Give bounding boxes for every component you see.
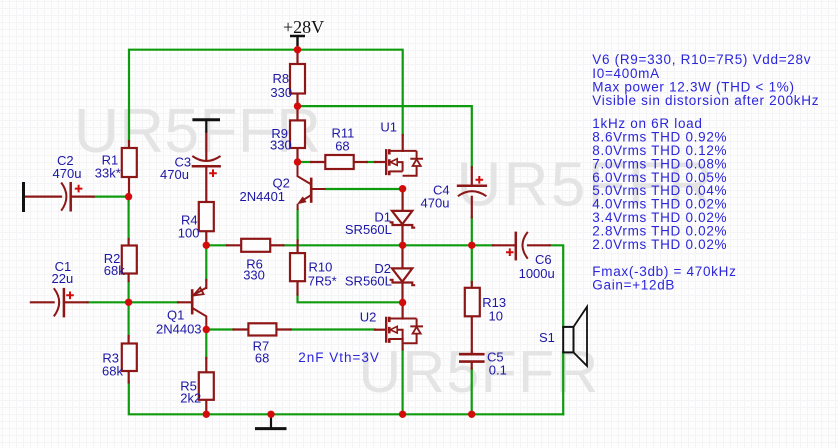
resistor R9 (290, 120, 305, 148)
wire R9 bottom node to R11 (299, 161, 311, 163)
resistor R4 (199, 202, 214, 231)
wire Q2 base to U1 source node (326, 188, 403, 190)
wire R1 top lead (128, 141, 130, 148)
wire R7 right lead (277, 328, 291, 330)
junction D2/U2 drain (399, 299, 406, 306)
wire U2 gate lead (375, 329, 386, 331)
svg-text:+28V: +28V (283, 17, 324, 37)
wire Q1 collector node to R7 (206, 328, 233, 330)
svg-text:Gain=+12dB: Gain=+12dB (592, 278, 675, 293)
wire D2 anode lead (401, 245, 403, 268)
wire R3 top lead (128, 336, 130, 344)
wire Q1 collector node to R5 (205, 330, 207, 359)
junction R5/ground rail (203, 411, 210, 418)
capacitor C4 (457, 186, 487, 196)
wire R2 top lead (128, 239, 130, 246)
wire R5 bottom lead (205, 400, 207, 415)
wire R7 left lead (234, 328, 249, 330)
transistor Q2 (297, 162, 326, 210)
wire U1 drain lead (402, 135, 404, 151)
svg-text:33k*: 33k* (95, 166, 121, 181)
polarity + C3 (209, 169, 217, 177)
wire R3 bottom lead (128, 371, 130, 382)
junction U1 source/D1 (399, 185, 406, 192)
svg-text:470u: 470u (421, 196, 450, 211)
wire C4 bottom lead (471, 197, 473, 218)
wire D2 cathode lead (401, 283, 403, 303)
svg-text:2.0Vrms THD 0.02%: 2.0Vrms THD 0.02% (592, 237, 727, 252)
svg-text:Visible sin distorsion after 2: Visible sin distorsion after 200kHz (592, 93, 819, 108)
junction U2 source/rail (399, 411, 406, 418)
wire U2 source to ground rail (402, 349, 404, 414)
capacitor C2 (61, 182, 70, 212)
resistor R3 (122, 344, 137, 372)
wire D1 anode lead (402, 189, 404, 211)
svg-text:Q1: Q1 (167, 308, 184, 323)
resistor R1 (122, 148, 137, 177)
wire C3 to R4 lead (205, 167, 207, 202)
wire R7 to U2 gate (291, 328, 375, 330)
svg-text:470u: 470u (53, 166, 82, 181)
svg-text:S1: S1 (539, 330, 555, 345)
wire C6 right lead (528, 244, 550, 246)
wire R1 bottom to R2 (128, 197, 130, 239)
wire C2 right lead (72, 196, 94, 198)
svg-text:R13: R13 (482, 295, 506, 310)
svg-text:68k: 68k (102, 363, 123, 378)
svg-text:U1: U1 (380, 120, 397, 135)
svg-text:2N4403: 2N4403 (156, 322, 202, 337)
capacitor C3 (192, 156, 221, 166)
wire +28V top rail (129, 50, 403, 141)
wire speaker S1 to ground rail (562, 352, 564, 414)
wire Q1 base lead (178, 301, 192, 303)
wire D1 cathode lead (401, 225, 403, 245)
wire R6 to diode mid node (283, 244, 402, 246)
capacitor C6 (516, 232, 528, 261)
wire node A to R6 (206, 244, 227, 246)
ground (bottom rail) (270, 414, 272, 428)
wire R2 bottom lead (128, 274, 130, 282)
power +28V symbol (290, 36, 305, 46)
svg-text:2nF Vth=3V: 2nF Vth=3V (298, 350, 380, 365)
wire R6 left lead (227, 244, 241, 246)
svg-text:68: 68 (255, 350, 269, 365)
svg-text:2k2: 2k2 (180, 391, 201, 406)
ground (C3 top) (192, 118, 220, 121)
svg-text:68k: 68k (104, 263, 125, 278)
wire R6 right lead (270, 244, 283, 246)
svg-text:330: 330 (270, 85, 292, 100)
junction R8/R9 (294, 102, 301, 109)
wire U1 gate lead (375, 161, 386, 163)
svg-text:1000u: 1000u (519, 266, 555, 281)
junction Q1 collector/R7/R5 (203, 326, 210, 333)
resistor R13 (465, 288, 480, 317)
polarity + C2 (75, 185, 83, 193)
capacitor C5 (459, 354, 485, 361)
wire R9 bottom lead (296, 148, 298, 162)
wire R11 to U1 gate (367, 161, 375, 163)
polarity + C6 (506, 248, 514, 256)
wire C4 top lead (471, 167, 473, 185)
wire C2 to R1/R2 node (94, 196, 129, 198)
wire C5 bottom lead (471, 363, 473, 369)
junction node A (R4/Q1e/R6) (203, 242, 210, 249)
wire output node to C6 (472, 244, 493, 246)
wire R5 top lead (205, 358, 207, 372)
wire R13 to C5 lead (471, 316, 473, 353)
wire C6 left lead (493, 244, 516, 246)
transistor Q1 (192, 288, 206, 330)
capacitor C1 (54, 288, 64, 318)
resistor R7 (248, 323, 276, 335)
wire input node to Q1 base (129, 301, 178, 303)
resistor R6 (241, 239, 270, 252)
svg-text:0.1: 0.1 (489, 363, 507, 378)
svg-text:7R5*: 7R5* (308, 273, 337, 288)
wire R10 bottom lead (296, 281, 298, 294)
junction R9/R11/Q2 collector (294, 158, 301, 165)
wire R9 top lead (296, 106, 298, 120)
wire R3 to ground rail + bottom rail (129, 382, 563, 414)
resistor R5 (199, 372, 214, 400)
wire R11 left lead (311, 161, 325, 163)
wire U2 drain lead (402, 303, 404, 319)
wire C4 bottom to output node (471, 217, 473, 282)
wire R4 bottom lead (205, 231, 207, 245)
junction +28V rail (294, 46, 301, 53)
svg-text:SR560L: SR560L (345, 222, 392, 237)
resistor R2 (122, 246, 137, 274)
mosfet U2 (386, 317, 423, 344)
wire C5 to ground rail (471, 369, 473, 415)
wire C2 left lead (26, 196, 62, 198)
svg-text:330: 330 (243, 268, 265, 283)
mosfet U1 (386, 149, 423, 176)
junction ground symbol (267, 411, 274, 418)
resistor R11 (325, 155, 353, 169)
wire C6 to speaker S1 (550, 245, 563, 327)
wire R1 bottom lead (128, 177, 130, 197)
polarity + C1 (66, 292, 74, 300)
wire R8 bottom lead (296, 94, 298, 107)
svg-text:470u: 470u (160, 167, 189, 182)
svg-text:SR560L: SR560L (345, 273, 392, 288)
wire Q2 emitter to R10 lead (297, 241, 299, 254)
junction C5/rail (468, 411, 475, 418)
wire Q2 emitter down (297, 210, 299, 241)
wire C1 right lead (65, 301, 88, 303)
wire R13 top lead (471, 282, 473, 288)
junction C2/R1/R2 (125, 193, 132, 200)
wire R8 top lead (296, 50, 298, 64)
junction output/C6/R13 (468, 242, 475, 249)
wire R2 bottom to input node (128, 281, 130, 302)
wire R10 bottom to U2 drain node (298, 295, 403, 303)
svg-text:330: 330 (270, 138, 292, 153)
wire C1 to input node (88, 301, 129, 303)
wire C3 top lead (205, 133, 207, 161)
diode D1 (390, 211, 416, 228)
svg-text:C6: C6 (535, 252, 552, 267)
wire node A to Q1 emitter (205, 248, 207, 280)
svg-text:R8: R8 (273, 71, 290, 86)
junction input node (125, 299, 132, 306)
junction D1/D2 output node (399, 242, 406, 249)
wire Q1 emitter lead (205, 280, 207, 288)
diode D2 (390, 268, 416, 285)
svg-text:68: 68 (335, 138, 349, 153)
speaker S1 (563, 307, 587, 366)
svg-text:2N4401: 2N4401 (240, 189, 286, 204)
wire R11 right lead (354, 161, 367, 163)
wire input node to R3 (128, 302, 130, 336)
wire U2 source lead (402, 339, 404, 349)
ground (input C2) (22, 182, 25, 212)
resistor R10 (290, 253, 305, 281)
wire bootstrap row from R8/R9 node to C4 (298, 106, 472, 167)
svg-text:10: 10 (489, 309, 503, 324)
polarity + C4 (476, 176, 484, 184)
wire C1 input lead (31, 301, 54, 303)
resistor R8 (290, 64, 305, 94)
svg-text:100: 100 (178, 226, 200, 241)
wire output node to C6 branch (403, 244, 472, 246)
svg-text:U2: U2 (360, 310, 377, 325)
svg-text:22u: 22u (52, 271, 74, 286)
